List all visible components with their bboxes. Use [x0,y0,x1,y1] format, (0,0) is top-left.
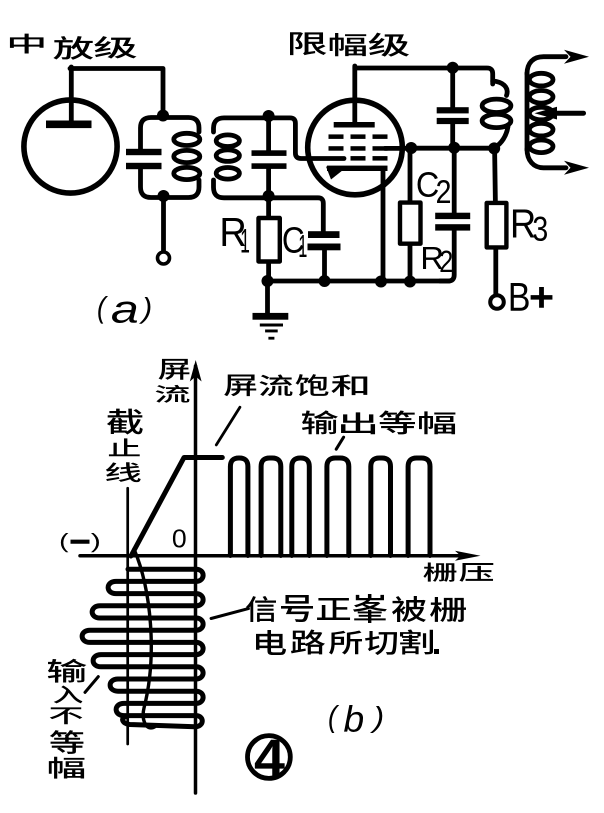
negative axis label (—) [61,533,68,552]
secondary output arrow bottom [564,161,589,175]
pointer line for annotation [211,609,248,619]
label R3 [513,210,534,238]
inductor L1 coil [174,133,200,145]
capacitor C1 lead [322,250,327,281]
secondary coil loops [529,73,553,86]
node tank1 top [157,110,169,122]
tube V1 plate lead [69,67,74,124]
annotation 电路所切割 line 2 [256,630,286,655]
origin label 0 [173,529,186,547]
wire top rail (V2 plate to transformer) [355,68,493,84]
secondary center tap [535,107,558,120]
node screen rail right [488,142,500,154]
label R1 [223,218,245,246]
secondary coil bottom lead [527,149,566,168]
ground lead [265,281,270,314]
tube V2 cathode arrow [326,167,343,180]
resistor R2 [400,203,421,244]
figure number circle [248,736,291,779]
pointer line for 输入不等幅 [85,677,98,693]
plate tank capacitor plates [437,107,469,113]
y-axis [194,366,198,793]
tank1 outline left [141,118,164,198]
label (b) [329,705,339,733]
pointer line to saturation corner [216,407,240,445]
primary coil of output transformer [493,81,507,96]
node top rail [447,62,459,74]
secondary coil top lead [527,57,566,74]
node tank2 top [263,110,275,122]
node tank2 bottom [263,190,275,202]
capacitor C2 lead lower [440,231,454,281]
tank2 capacitor lead [266,118,271,151]
label 截止线 (cutoff line) [107,409,143,435]
capacitor C2 lead upper [452,148,457,213]
tank1 outline right [163,118,199,198]
y-axis arrowhead [190,360,202,382]
wire screen grid to rail [385,146,412,151]
plate tank capacitor leads [450,68,455,108]
label C1 [284,227,304,253]
stage label 中放级 (IF amplifier stage) [10,34,44,54]
x-axis label 栅压 (grid voltage) [423,563,456,582]
pointer tick for 输出等幅 [336,437,343,449]
tube V2 grid row 2 (screen, dashed) [329,146,344,151]
capacitor C1 plates [308,231,340,238]
inductor L2 coil [214,118,269,198]
label 输出等幅 (output equal amplitude) [302,410,338,434]
label (a) [98,296,108,324]
node screen rail mid [448,142,460,154]
wire cathode to ground rail [381,170,386,281]
tube V2 plate lead [352,66,357,122]
resistor R3 leads [492,148,498,203]
label 输入不等幅 (input unequal amplitude) [48,659,87,683]
tank2 capacitor plates [252,150,287,156]
tube V2 plate [334,122,375,128]
node screen rail left [405,142,417,154]
x-axis [80,554,468,558]
B+ terminal [490,295,504,309]
wire V1 plate to tank1 top [70,69,163,113]
label 屏流饱和 (plate current saturation) [224,374,256,396]
figure number 4 [255,740,285,776]
ground symbol [253,313,289,320]
input waveform (unequal-amplitude AM signal) [82,569,203,727]
tube V2 cathode [327,166,388,171]
label B+ [511,283,529,311]
node rail R2 [404,276,416,288]
annotation 信号正峯被栅 line 1 [246,596,276,622]
resistor R1 leads [266,196,271,219]
ground rail wire [268,279,450,284]
output terminal (open circle) [158,252,170,264]
resistor R1 [259,218,280,262]
screen rail wire [411,146,495,151]
secondary output arrow top [564,50,589,64]
wire grid: tank2 to V2 control grid [269,118,344,159]
label C2 [418,172,439,197]
node tank1 bottom [158,190,170,202]
output waveform (equal-amplitude pulses) [230,458,430,556]
wire tank1 bottom to terminal [161,196,166,252]
label R2 [423,247,443,269]
secondary coil spine [525,73,530,150]
wire tank2 bottom to C1 [269,198,324,232]
tube V1 plate [46,121,92,129]
tube V2 grid row 3 (dashed) [351,156,366,161]
y-axis label 屏流 (plate current) [159,359,190,380]
resistor R3 [487,203,507,248]
node rail C1 [319,275,331,287]
capacitor C2 plates [435,213,470,219]
input signal envelope curve [134,549,155,728]
tube V1 envelope [24,100,117,193]
tube V2 envelope [308,100,403,195]
node rail R1 [262,275,274,287]
tube V2 grid row 1 (dashed) [329,134,344,139]
stage label 限幅级 (limiter stage) [290,32,326,55]
transfer characteristic line [131,458,222,557]
cutoff line (vertical) [126,488,129,744]
node rail cathode [375,276,387,288]
x-axis arrowhead [455,551,481,561]
tank1 capacitor plates [126,149,162,155]
resistor R2 leads [408,148,413,203]
